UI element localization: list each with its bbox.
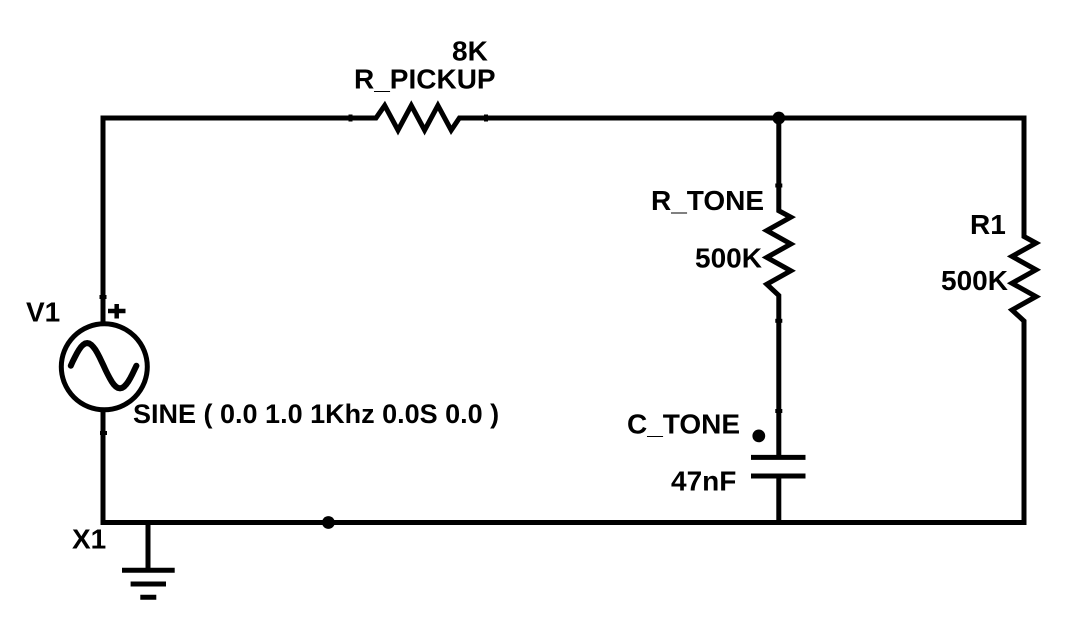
svg-text:C_TONE: C_TONE [627,409,740,440]
svg-text:47nF: 47nF [671,466,736,497]
svg-text:X1: X1 [72,524,106,555]
svg-text:V1: V1 [26,297,60,328]
svg-text:R_PICKUP: R_PICKUP [354,64,496,95]
svg-text:500K: 500K [941,265,1008,296]
svg-text:R1: R1 [970,209,1006,240]
svg-text:R_TONE: R_TONE [651,185,764,216]
svg-text:8K: 8K [452,35,488,66]
svg-text:500K: 500K [695,242,762,273]
svg-text:SINE ( 0.0 1.0 1Khz 0.0S 0.0 ): SINE ( 0.0 1.0 1Khz 0.0S 0.0 ) [133,399,499,429]
